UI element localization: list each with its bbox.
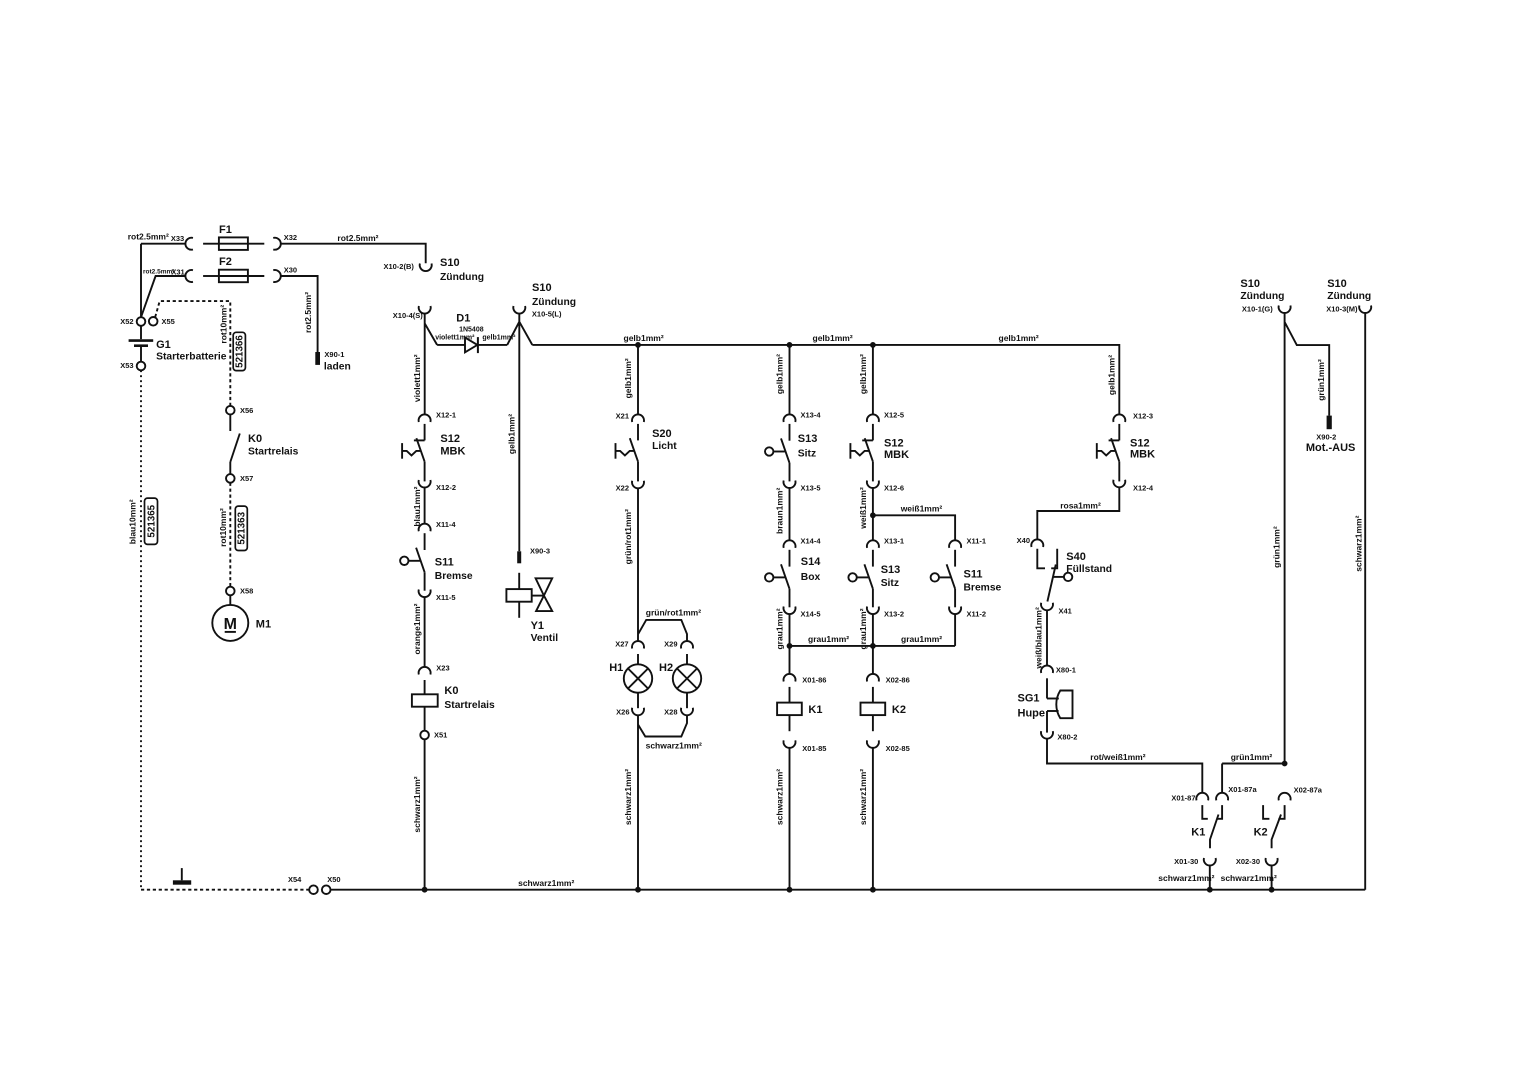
- wire label rot2.5mm²: [143, 269, 175, 276]
- wire weiß1mm² down through junction: [872, 488, 874, 540]
- junction node K1 / ground bus: [787, 887, 793, 893]
- connector X33: [171, 234, 193, 250]
- svg-text:rot2.5mm²: rot2.5mm²: [128, 232, 169, 242]
- svg-text:X12-4: X12-4: [1133, 483, 1154, 492]
- connector X13-2: [867, 607, 904, 619]
- svg-text:schwarz1mm²: schwarz1mm²: [1354, 515, 1364, 571]
- svg-text:blau10mm²: blau10mm²: [128, 499, 138, 544]
- svg-text:X02-87a: X02-87a: [1294, 786, 1323, 795]
- svg-text:X29: X29: [664, 640, 677, 649]
- connector X30: [273, 266, 297, 283]
- svg-text:X02-85: X02-85: [886, 744, 910, 753]
- svg-text:gelb1mm²: gelb1mm²: [999, 333, 1039, 343]
- wire gelb1mm² bus to X12-5: [872, 345, 874, 415]
- wire label rosa1mm²: [1060, 501, 1101, 511]
- connector X80-1: [1041, 666, 1076, 675]
- svg-text:M1: M1: [256, 619, 271, 631]
- connector X13-4: [784, 411, 822, 422]
- wire label grün1mm² (vertical, long): [1272, 526, 1282, 568]
- connector X12-3: [1113, 412, 1153, 422]
- lamp H2: [659, 654, 701, 708]
- svg-text:X11-4: X11-4: [436, 520, 456, 529]
- connector X12-2: [419, 480, 456, 492]
- svg-text:S14: S14: [801, 556, 821, 568]
- connector X01-85: [784, 740, 827, 753]
- cable number 521363: [235, 506, 247, 550]
- svg-text:grün1mm²: grün1mm²: [1316, 359, 1326, 401]
- svg-text:X11-2: X11-2: [967, 609, 987, 618]
- wire gelb1mm² main bus: [532, 345, 1119, 415]
- svg-text:S11: S11: [435, 557, 454, 569]
- wire rot2.5mm² battery to fuse F2 (diagonal X52 to X31): [141, 276, 185, 317]
- svg-text:rot2.5mm²: rot2.5mm²: [143, 269, 175, 276]
- wire label gelb1mm² (vertical): [623, 358, 633, 398]
- svg-text:S10: S10: [1327, 278, 1347, 290]
- wire schwarz1mm² K1 contact to ground bus: [1158, 866, 1214, 890]
- svg-text:X33: X33: [171, 234, 184, 243]
- svg-text:S20: S20: [652, 428, 672, 440]
- connector X22: [616, 481, 644, 493]
- svg-text:Sitz: Sitz: [798, 448, 816, 459]
- junction node gelb bus / S20: [635, 342, 641, 348]
- connector X11-5: [419, 590, 456, 602]
- svg-text:X57: X57: [240, 474, 253, 483]
- connector X02-86: [867, 674, 910, 684]
- connector X14-5: [784, 607, 821, 619]
- svg-text:MBK: MBK: [1130, 449, 1155, 461]
- terminal X52: [120, 317, 145, 326]
- connector X26: [616, 708, 644, 717]
- svg-text:X01-87a: X01-87a: [1228, 785, 1257, 794]
- svg-text:X12-1: X12-1: [436, 411, 456, 420]
- svg-text:MBK: MBK: [884, 449, 909, 461]
- wire label gelb1mm² bus 2: [813, 333, 853, 343]
- wire label schwarz1mm² ground bus: [518, 878, 574, 888]
- wire rosa1mm² X12-4 to X40: [1037, 487, 1119, 539]
- solenoid valve Y1 Ventil: [506, 573, 558, 644]
- wire schwarz1mm² X10-3(M) to ground bus: [1364, 313, 1366, 890]
- svg-text:X52: X52: [120, 317, 133, 326]
- terminal X53: [120, 361, 145, 370]
- junction node grau bus / K1: [787, 643, 793, 649]
- svg-text:X13-5: X13-5: [801, 483, 821, 492]
- svg-text:Box: Box: [801, 572, 821, 583]
- svg-text:Licht: Licht: [652, 441, 677, 452]
- svg-text:schwarz1mm²: schwarz1mm²: [412, 776, 422, 832]
- svg-text:Zündung: Zündung: [1327, 291, 1371, 302]
- wire rot/weiß1mm² horn to K1 contact: [1047, 739, 1202, 793]
- svg-text:M: M: [224, 616, 237, 633]
- wire label rot2.5mm²: [128, 232, 169, 242]
- connector X11-4: [419, 520, 457, 531]
- svg-text:Ventil: Ventil: [531, 633, 559, 644]
- junction node lamps / ground bus: [635, 887, 641, 893]
- connector X12-4: [1113, 480, 1154, 493]
- svg-text:grün1mm²: grün1mm²: [1231, 752, 1273, 762]
- svg-text:X01-85: X01-85: [802, 744, 826, 753]
- diode D1 1N5408: [435, 312, 516, 353]
- switch S14 Box: [765, 550, 821, 608]
- svg-text:Startrelais: Startrelais: [444, 700, 495, 711]
- svg-text:S10: S10: [1240, 278, 1260, 290]
- svg-text:X54: X54: [288, 875, 302, 884]
- junction node grau bus / K2: [870, 643, 876, 649]
- fuse F2: [203, 256, 264, 282]
- connector X12-1: [419, 411, 456, 422]
- wire label weiß1mm²: [900, 504, 943, 514]
- wire rot10mm² X57 to X58 (dashed): [229, 483, 231, 587]
- svg-text:Y1: Y1: [531, 620, 544, 632]
- svg-text:X10-5(L): X10-5(L): [532, 310, 562, 319]
- wire label weiß/blau1mm² (vertical): [1034, 607, 1044, 670]
- wire rot10mm² X55 to X56 (dashed): [155, 301, 230, 406]
- svg-text:rosa1mm²: rosa1mm²: [1060, 501, 1101, 511]
- plug X90-1 laden: [315, 350, 351, 372]
- wire label grau1mm² (vertical): [775, 608, 785, 649]
- wire label schwarz1mm² (vertical): [412, 776, 422, 832]
- svg-text:grau1mm²: grau1mm²: [775, 608, 785, 649]
- svg-text:gelb1mm²: gelb1mm²: [858, 354, 868, 394]
- svg-text:X90-2: X90-2: [1316, 433, 1336, 442]
- svg-text:X41: X41: [1059, 607, 1072, 616]
- cable number 521366: [233, 332, 245, 370]
- svg-text:X11-5: X11-5: [436, 593, 456, 602]
- junction node grün / K2 contact: [1282, 761, 1288, 767]
- junction node gelb bus / S13: [787, 342, 793, 348]
- wire label blau1mm² (vertical): [412, 486, 422, 526]
- horn SG1 Hupe: [1018, 678, 1073, 732]
- starter motor M1: [212, 595, 271, 641]
- svg-text:Zündung: Zündung: [1240, 291, 1284, 302]
- wire schwarz1mm² K2 contact to ground bus: [1221, 866, 1277, 890]
- connector X13-5: [784, 480, 821, 492]
- svg-text:rot/weiß1mm²: rot/weiß1mm²: [1090, 752, 1145, 762]
- battery G1 Starterbatterie: [129, 326, 227, 363]
- wire rot2.5mm² X32 to S10 X10-2(B): [281, 244, 426, 264]
- plug X90-2 Mot.-AUS: [1306, 416, 1356, 455]
- svg-text:Sitz: Sitz: [881, 578, 899, 589]
- svg-text:S11: S11: [964, 568, 983, 580]
- terminal X51: [420, 731, 447, 740]
- svg-text:H1: H1: [609, 662, 623, 674]
- svg-text:X26: X26: [616, 708, 629, 717]
- connector X01-87: [1171, 793, 1208, 803]
- svg-text:laden: laden: [324, 361, 351, 372]
- wire schwarz1mm² K0 to ground bus: [424, 739, 426, 889]
- svg-text:X11-1: X11-1: [967, 537, 987, 546]
- svg-text:F1: F1: [219, 224, 232, 236]
- svg-text:schwarz1mm²: schwarz1mm²: [775, 769, 785, 825]
- svg-text:Zündung: Zündung: [440, 272, 484, 283]
- svg-text:grau1mm²: grau1mm²: [808, 634, 849, 644]
- svg-text:X56: X56: [240, 406, 253, 415]
- svg-text:weiß/blau1mm²: weiß/blau1mm²: [1034, 607, 1044, 670]
- svg-text:rot10mm²: rot10mm²: [218, 508, 228, 547]
- svg-text:schwarz1mm²: schwarz1mm²: [646, 741, 702, 751]
- terminal X55: [149, 317, 175, 326]
- svg-text:schwarz1mm²: schwarz1mm²: [623, 769, 633, 825]
- svg-text:K1: K1: [808, 704, 822, 716]
- svg-text:X51: X51: [434, 731, 447, 740]
- switch S12 MBK: [402, 424, 465, 482]
- wire label gelb1mm² (vertical): [1107, 355, 1117, 395]
- wire blau1mm²: [424, 488, 426, 524]
- svg-text:X12-3: X12-3: [1133, 412, 1153, 421]
- connector X02-87a: [1279, 786, 1323, 801]
- wire rot2.5mm² X30 to laden plug X90-1: [281, 276, 318, 352]
- svg-text:violett1mm²: violett1mm²: [412, 354, 422, 402]
- wire label schwarz1mm² (vertical): [1354, 515, 1364, 571]
- svg-text:Füllstand: Füllstand: [1066, 564, 1112, 575]
- wire label gelb1mm² (vertical): [775, 354, 785, 394]
- svg-text:X53: X53: [120, 361, 133, 370]
- relay coil K0 Startrelais: [412, 680, 495, 731]
- connector X80-2: [1041, 731, 1077, 741]
- connector X27: [615, 640, 644, 649]
- connector X02-85: [867, 740, 910, 753]
- svg-text:braun1mm²: braun1mm²: [775, 487, 785, 533]
- svg-text:schwarz1mm²: schwarz1mm²: [1158, 873, 1214, 883]
- connector X29: [664, 640, 693, 649]
- switch S20 Licht: [616, 424, 678, 482]
- svg-text:X30: X30: [284, 266, 297, 275]
- svg-text:K0: K0: [444, 685, 458, 697]
- junction node K1 contact / ground bus: [1207, 887, 1213, 893]
- wire label rot2.5mm² (vertical): [303, 292, 313, 333]
- svg-text:X12-5: X12-5: [884, 411, 904, 420]
- wire label grau1mm² (vertical): [858, 608, 868, 649]
- svg-text:X32: X32: [284, 233, 297, 242]
- junction node K2 contact / ground bus: [1269, 887, 1275, 893]
- wire grau1mm² S11 to grau bus: [954, 614, 956, 646]
- svg-text:X80-1: X80-1: [1056, 666, 1076, 675]
- svg-text:Zündung: Zündung: [532, 297, 576, 308]
- wire label schwarz1mm² (vertical): [858, 769, 868, 825]
- svg-text:grün/rot1mm²: grün/rot1mm²: [646, 608, 701, 618]
- svg-text:X80-2: X80-2: [1057, 733, 1077, 742]
- svg-text:gelb1mm²: gelb1mm²: [1107, 355, 1117, 395]
- wire schwarz1mm² K2 to ground bus: [872, 748, 874, 890]
- svg-text:X01-86: X01-86: [802, 675, 826, 684]
- wire label rot2.5mm²: [337, 233, 378, 243]
- svg-text:gelb1mm²: gelb1mm²: [813, 333, 853, 343]
- svg-text:gelb1mm²: gelb1mm²: [775, 354, 785, 394]
- svg-text:grau1mm²: grau1mm²: [901, 634, 942, 644]
- svg-text:grün1mm²: grün1mm²: [1272, 526, 1282, 568]
- fuse F1: [203, 224, 264, 250]
- svg-text:rot2.5mm²: rot2.5mm²: [337, 233, 378, 243]
- svg-text:S10: S10: [532, 282, 552, 294]
- wire label gelb1mm² (vertical): [858, 354, 868, 394]
- svg-text:Bremse: Bremse: [435, 571, 473, 582]
- svg-text:521363: 521363: [237, 511, 248, 544]
- wire grün/rot1mm² down to lamp split: [638, 488, 687, 641]
- connector X23: [419, 664, 450, 675]
- svg-text:orange1mm²: orange1mm²: [412, 603, 422, 654]
- svg-text:gelb1mm²: gelb1mm²: [623, 358, 633, 398]
- svg-text:X90-3: X90-3: [530, 547, 550, 556]
- svg-text:X13-4: X13-4: [801, 411, 822, 420]
- svg-text:X90-1: X90-1: [324, 350, 344, 359]
- connector X13-1: [867, 537, 904, 548]
- svg-text:blau1mm²: blau1mm²: [412, 486, 422, 526]
- connector X11-2: [949, 607, 986, 619]
- svg-text:D1: D1: [456, 312, 470, 324]
- relay contact K2: [1254, 805, 1285, 848]
- svg-text:Bremse: Bremse: [964, 582, 1002, 593]
- connector X10-1(G) from S10 Zündung: [1240, 278, 1290, 314]
- wire label gelb1mm² bus 3: [999, 333, 1039, 343]
- svg-text:X50: X50: [327, 875, 340, 884]
- svg-text:X21: X21: [616, 412, 629, 421]
- svg-text:rot2.5mm²: rot2.5mm²: [303, 292, 313, 333]
- wire label rot10mm² (vertical): [218, 508, 228, 547]
- svg-text:X10-4(S): X10-4(S): [393, 311, 424, 320]
- connector X10-5(L) from S10 Zündung: [513, 282, 576, 318]
- svg-text:H2: H2: [659, 662, 673, 674]
- wire schwarz1mm² ground bus: [330, 889, 1365, 891]
- svg-text:violett1mm²: violett1mm²: [435, 334, 475, 341]
- svg-text:Hupe: Hupe: [1018, 707, 1046, 719]
- svg-text:K2: K2: [1254, 826, 1268, 838]
- wire label braun1mm² (vertical): [775, 487, 785, 533]
- svg-text:rot10mm²: rot10mm²: [218, 305, 228, 344]
- connector X32: [273, 233, 297, 250]
- svg-text:weiß1mm²: weiß1mm²: [900, 504, 943, 514]
- svg-text:SG1: SG1: [1018, 693, 1040, 705]
- wire label violett1mm² (vertical): [412, 354, 422, 402]
- connector X01-30: [1174, 857, 1216, 866]
- wire label blau10mm² (vertical): [128, 499, 138, 544]
- wire label rot/weiß1mm²: [1090, 752, 1145, 762]
- wire grün1mm² X10-1(G) down with Mot.-AUS branch: [1285, 313, 1330, 764]
- connector X01-87a: [1216, 785, 1257, 800]
- svg-text:X10-1(G): X10-1(G): [1242, 305, 1273, 314]
- svg-text:X28: X28: [664, 708, 677, 717]
- svg-text:X40: X40: [1017, 536, 1030, 545]
- switch S13 Sitz (2): [848, 550, 900, 608]
- terminal X56: [226, 406, 253, 415]
- wire weiß/blau1mm² X41 to horn: [1046, 610, 1048, 665]
- switch S12 MBK (2): [850, 424, 909, 482]
- terminal X50: [322, 875, 341, 894]
- svg-text:gelb1mm²: gelb1mm²: [507, 414, 517, 454]
- switch S13 Sitz: [765, 424, 817, 482]
- wire grün1mm² to X01-87a: [1222, 764, 1285, 793]
- svg-text:MBK: MBK: [440, 446, 465, 458]
- connector X14-4: [784, 537, 822, 548]
- connector X21: [616, 412, 644, 422]
- svg-text:1N5408: 1N5408: [459, 327, 484, 334]
- svg-text:Startrelais: Startrelais: [248, 447, 299, 458]
- wire orange1mm²: [424, 597, 426, 667]
- svg-text:S13: S13: [881, 564, 901, 576]
- wire schwarz1mm² K1 to ground bus: [789, 748, 791, 890]
- svg-text:S13: S13: [798, 433, 818, 445]
- wire label grün/rot1mm² (vertical): [623, 509, 633, 564]
- svg-text:grün/rot1mm²: grün/rot1mm²: [623, 509, 633, 564]
- svg-text:K0: K0: [248, 433, 262, 445]
- switch S11 Bremse: [400, 533, 473, 591]
- wire violett1mm² X10-4(S) down and to diode: [425, 314, 437, 415]
- lamp H1: [609, 654, 652, 708]
- wire label grau1mm² 2: [901, 634, 942, 644]
- wire rot2.5mm² battery to fuse F1 (X52 up, left rail): [141, 244, 185, 318]
- wire label grün/rot1mm²: [646, 608, 701, 618]
- connector X41: [1041, 603, 1072, 616]
- wire label weiß1mm² (vertical): [858, 487, 868, 530]
- relay coil K1: [777, 687, 822, 731]
- relay coil K2: [861, 687, 906, 731]
- connector X01-86: [784, 674, 827, 684]
- switch S12 MBK (3): [1097, 424, 1155, 482]
- svg-text:X55: X55: [162, 317, 175, 326]
- svg-text:521366: 521366: [235, 335, 246, 368]
- wire blau10mm² battery negative (dotted): [140, 370, 142, 889]
- wire grau1mm² to K2 coil: [872, 614, 874, 674]
- connector X10-4(S) from S10 Zündung: [393, 306, 431, 320]
- connector X10-3(M) from S10 Zündung: [1326, 278, 1371, 314]
- svg-text:K2: K2: [892, 704, 906, 716]
- svg-text:S10: S10: [440, 257, 460, 269]
- connector X31: [171, 268, 193, 282]
- wire label gelb1mm² bus 1: [624, 333, 664, 343]
- wire label rot10mm² (vertical): [218, 305, 228, 344]
- svg-text:Starterbatterie: Starterbatterie: [156, 352, 227, 363]
- svg-text:X10-2(B): X10-2(B): [383, 262, 414, 271]
- svg-text:grau1mm²: grau1mm²: [858, 608, 868, 649]
- svg-text:schwarz1mm²: schwarz1mm²: [1221, 873, 1277, 883]
- wire schwarz1mm² lamps merge: [638, 715, 687, 889]
- svg-text:X13-1: X13-1: [884, 537, 904, 546]
- connector X11-1: [949, 537, 986, 548]
- svg-text:X27: X27: [615, 640, 628, 649]
- svg-text:X02-30: X02-30: [1236, 857, 1260, 866]
- wire grau1mm² bus: [790, 645, 956, 647]
- svg-text:schwarz1mm²: schwarz1mm²: [858, 769, 868, 825]
- junction node K2 / ground bus: [870, 887, 876, 893]
- cable number 521365: [145, 498, 158, 544]
- svg-text:Mot.-AUS: Mot.-AUS: [1306, 442, 1356, 454]
- svg-text:schwarz1mm²: schwarz1mm²: [518, 878, 574, 888]
- svg-text:X01-87: X01-87: [1171, 794, 1195, 803]
- svg-text:K1: K1: [1191, 826, 1205, 838]
- connector X02-30: [1236, 857, 1278, 866]
- svg-text:gelb1mm²: gelb1mm²: [624, 333, 664, 343]
- svg-text:X01-30: X01-30: [1174, 857, 1198, 866]
- connector X12-5: [867, 411, 904, 422]
- connector X28: [664, 708, 693, 717]
- svg-text:X23: X23: [436, 664, 449, 673]
- ground chassis: [173, 868, 191, 885]
- svg-text:S12: S12: [884, 438, 904, 450]
- junction node gelb bus / S12: [870, 342, 876, 348]
- wire braun1mm²: [789, 488, 791, 540]
- wire weiß1mm² to S11 Bremse: [873, 515, 955, 540]
- relay contact K1: [1191, 805, 1222, 848]
- svg-text:weiß1mm²: weiß1mm²: [858, 487, 868, 530]
- terminal X57: [226, 474, 253, 483]
- svg-text:X58: X58: [240, 587, 253, 596]
- switch S11 Bremse (2): [931, 550, 1002, 608]
- connector X12-6: [867, 480, 904, 492]
- svg-text:X13-2: X13-2: [884, 609, 904, 618]
- wire label grün1mm² (vertical, Mot.-AUS): [1316, 359, 1326, 401]
- switch S40 Füllstand: [1037, 549, 1112, 602]
- connector X40: [1017, 536, 1044, 547]
- svg-text:X14-4: X14-4: [801, 537, 822, 546]
- wire label grau1mm² 1: [808, 634, 849, 644]
